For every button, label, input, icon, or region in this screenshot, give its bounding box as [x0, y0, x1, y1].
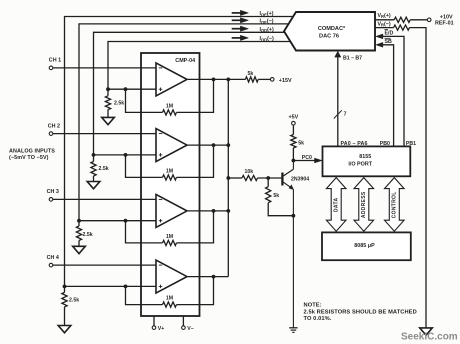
- svg-text:NOTE:: NOTE:: [304, 303, 322, 309]
- svg-text:2.5k: 2.5k: [99, 166, 109, 172]
- svg-text:+15V: +15V: [279, 78, 292, 84]
- svg-text:IOD(+): IOD(+): [260, 27, 274, 33]
- svg-text:10k: 10k: [245, 169, 254, 175]
- svg-text:B1 – B7: B1 – B7: [343, 55, 362, 61]
- svg-text:2N3904: 2N3904: [291, 176, 309, 182]
- svg-text:IOE(+): IOE(+): [260, 11, 274, 17]
- svg-text:CMP-04: CMP-04: [175, 58, 195, 64]
- svg-text:I/O PORT: I/O PORT: [348, 161, 372, 167]
- svg-text:IOE(−): IOE(−): [260, 19, 274, 25]
- svg-text:1M: 1M: [166, 234, 173, 240]
- svg-text:V+: V+: [158, 326, 165, 332]
- svg-text:VR(−): VR(−): [378, 21, 391, 27]
- svg-text:CH 2: CH 2: [48, 123, 60, 129]
- svg-text:COMDAC*: COMDAC*: [318, 26, 346, 32]
- svg-text:SeekIC.com: SeekIC.com: [401, 332, 458, 343]
- svg-text:TO 0.01%.: TO 0.01%.: [304, 316, 332, 322]
- svg-text:5k: 5k: [298, 140, 304, 146]
- svg-text:PC0: PC0: [302, 155, 312, 161]
- svg-text:2.5k: 2.5k: [114, 101, 124, 107]
- svg-text:VR(+): VR(+): [378, 13, 391, 19]
- svg-text:ADDRESS: ADDRESS: [361, 191, 367, 218]
- svg-text:8155: 8155: [359, 154, 371, 160]
- svg-text:DAC 76: DAC 76: [319, 34, 339, 40]
- svg-text:8085 μP: 8085 μP: [354, 243, 375, 249]
- svg-text:IOD(−): IOD(−): [260, 36, 274, 42]
- svg-text:ANALOG INPUTS: ANALOG INPUTS: [9, 148, 55, 154]
- svg-text:REF-01: REF-01: [435, 20, 454, 26]
- svg-text:2.5k RESISTORS SHOULD BE MATCH: 2.5k RESISTORS SHOULD BE MATCHED: [304, 309, 417, 315]
- svg-text:CH 1: CH 1: [49, 58, 61, 64]
- svg-text:2.5k: 2.5k: [69, 298, 79, 304]
- svg-text:1M: 1M: [166, 296, 173, 302]
- svg-text:PA0 – PA6: PA0 – PA6: [341, 141, 368, 147]
- svg-text:PB1: PB1: [406, 141, 416, 147]
- svg-text:1M: 1M: [166, 168, 173, 174]
- svg-text:2.5k: 2.5k: [83, 232, 93, 238]
- svg-text:(−5mV TO −5V): (−5mV TO −5V): [9, 155, 49, 161]
- svg-text:V−: V−: [187, 326, 194, 332]
- svg-text:PB0: PB0: [380, 141, 390, 147]
- svg-text:7: 7: [344, 111, 347, 117]
- svg-text:DATA: DATA: [334, 198, 340, 212]
- svg-text:5k: 5k: [273, 193, 279, 199]
- svg-text:CH 3: CH 3: [47, 189, 59, 195]
- svg-text:5k: 5k: [248, 71, 254, 77]
- svg-text:SB: SB: [385, 39, 393, 45]
- svg-text:E/D: E/D: [385, 30, 394, 36]
- svg-text:+5V: +5V: [289, 115, 299, 121]
- svg-text:CONTROL: CONTROL: [392, 191, 398, 218]
- svg-text:1M: 1M: [166, 103, 173, 109]
- svg-text:CH 4: CH 4: [47, 255, 59, 261]
